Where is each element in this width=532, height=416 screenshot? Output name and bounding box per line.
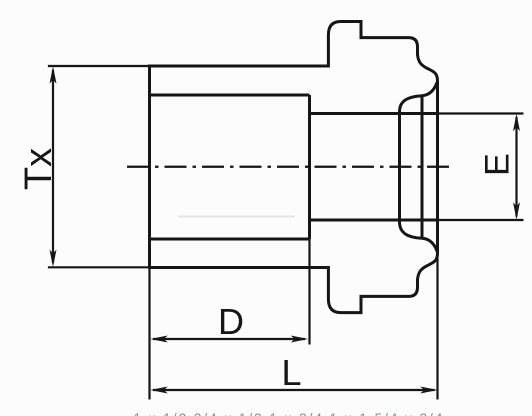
D arrow right	[291, 336, 309, 343]
E dimension line	[515, 117, 517, 217]
dome bottom curve	[400, 223, 423, 239]
dome left edge	[398, 110, 401, 224]
dome top right curve	[422, 82, 437, 96]
Tx extension line bottom	[48, 266, 148, 268]
E extension line top	[439, 112, 524, 114]
Tx arrow down	[50, 250, 57, 268]
tube bottom edge	[310, 219, 438, 222]
svg-text:L: L	[281, 352, 301, 393]
tube top edge	[310, 112, 438, 115]
svg-text:D: D	[218, 301, 244, 342]
svg-text:Tx: Tx	[18, 148, 60, 190]
socket bore top edge	[150, 94, 310, 97]
L extension line left	[148, 268, 150, 400]
L extension line right	[436, 254, 438, 400]
D dimension line	[153, 338, 305, 340]
dome top curve	[400, 96, 423, 111]
E arrow down	[513, 202, 520, 220]
L dimension line	[153, 389, 435, 391]
D arrow left	[150, 336, 168, 343]
svg-text:E: E	[479, 153, 517, 176]
E extension line bottom	[439, 219, 524, 221]
L arrow left	[150, 387, 168, 394]
D extension line right	[308, 239, 310, 345]
fitting body outline	[150, 22, 438, 313]
internal face edge	[308, 95, 311, 239]
Tx dimension line	[52, 70, 54, 263]
svg-text:1 x 1/2 3/4 x 1/2 1 x 3/4 1: 1 x 1/2 3/4 x 1/2 1 x 3/4 1 x 1 5/4 x 3/…	[134, 411, 445, 416]
E arrow up	[513, 114, 520, 132]
dome bottom right curve	[422, 238, 437, 251]
socket bore bottom edge	[150, 238, 310, 241]
centerline	[127, 166, 452, 168]
ghost scan artifact line	[178, 216, 295, 218]
Tx extension line top	[48, 65, 148, 67]
dome flat right edge	[421, 96, 424, 239]
L arrow right	[420, 387, 438, 394]
Tx arrow up	[50, 66, 57, 84]
